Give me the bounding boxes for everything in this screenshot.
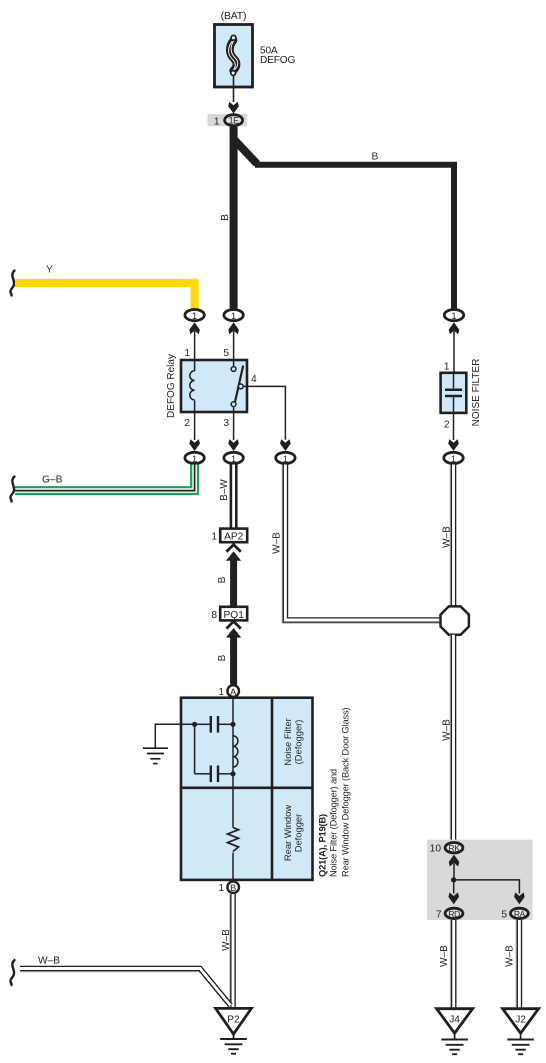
arrows into RD RA — [448, 892, 459, 904]
capacitor bottom — [195, 766, 233, 783]
defogger component box — [181, 698, 313, 880]
connector oval pin4 wire — [276, 452, 295, 463]
wire noise filter to lower connector — [453, 413, 455, 440]
svg-text:RA: RA — [514, 909, 526, 919]
connector band RK/RD/RA — [427, 840, 533, 920]
svg-text:W–B: W–B — [441, 526, 452, 548]
svg-text:3: 3 — [223, 418, 229, 429]
svg-text:B: B — [217, 654, 228, 661]
wire W-B bottom left — [10, 956, 230, 1007]
svg-text:W–B: W–B — [272, 532, 283, 554]
svg-text:1: 1 — [192, 311, 197, 321]
svg-text:RK: RK — [448, 843, 460, 853]
svg-text:1: 1 — [214, 117, 220, 128]
wire B main stem from 1E to relay pin5 connector — [230, 127, 238, 309]
node B — [218, 881, 239, 894]
svg-text:(BAT): (BAT) — [221, 10, 247, 22]
wire pin4 to W-B drop — [243, 386, 285, 439]
svg-text:AP2: AP2 — [224, 532, 244, 543]
svg-text:B: B — [217, 576, 228, 583]
chevron arrow below PQ1 — [226, 621, 241, 684]
junction dots — [192, 722, 197, 727]
svg-text:5: 5 — [501, 909, 507, 920]
svg-text:2: 2 — [444, 420, 450, 431]
arrow into 1E — [228, 102, 239, 114]
svg-text:8: 8 — [211, 610, 217, 621]
svg-text:Q21(A), P19(B): Q21(A), P19(B) — [318, 814, 328, 877]
svg-text:1: 1 — [218, 687, 224, 698]
wire B branch diagonal — [234, 139, 257, 164]
svg-text:1: 1 — [451, 454, 456, 464]
svg-text:7: 7 — [436, 909, 442, 920]
svg-text:J2: J2 — [515, 1015, 526, 1026]
junction box AP2 — [211, 529, 247, 543]
svg-text:B: B — [230, 883, 236, 893]
wire to RA branch — [454, 880, 520, 894]
ground J2 — [503, 1009, 539, 1054]
ground P2 — [216, 1008, 252, 1053]
svg-text:2: 2 — [184, 418, 190, 429]
ground symbol internal — [143, 748, 168, 763]
svg-text:1: 1 — [192, 454, 197, 464]
svg-text:1: 1 — [451, 311, 456, 321]
svg-text:B: B — [372, 152, 379, 163]
svg-text:Rear Window Defogger (Back Doo: Rear Window Defogger (Back Door Glass) — [341, 707, 351, 877]
wire W-B noise filter to octagon — [441, 465, 453, 608]
connector band 1E — [207, 114, 247, 126]
svg-text:G–B: G–B — [42, 475, 63, 486]
svg-text:W–B: W–B — [38, 956, 60, 967]
svg-text:RD: RD — [448, 909, 460, 919]
ground branch in box — [155, 724, 194, 748]
connector oval relay pin3 — [224, 452, 243, 463]
wire W-B octagon to RK — [442, 635, 454, 841]
connector oval relay pin1 — [185, 310, 204, 361]
wire W-B pin4 drop to octagon — [272, 465, 442, 624]
svg-text:W–B: W–B — [439, 945, 450, 967]
fuse element — [230, 40, 237, 70]
junction box PQ1 — [211, 607, 247, 621]
svg-text:B: B — [220, 214, 231, 221]
junction dot — [451, 877, 456, 882]
svg-text:Noise Filter: Noise Filter — [282, 718, 293, 765]
svg-text:10: 10 — [430, 844, 442, 855]
wire Y page connector curl — [10, 271, 14, 296]
relay switch — [233, 360, 235, 367]
svg-text:(Defogger): (Defogger) — [293, 720, 304, 765]
svg-text:W–B: W–B — [221, 929, 232, 951]
junction octagon — [441, 606, 469, 634]
svg-text:1: 1 — [218, 883, 224, 894]
svg-text:5: 5 — [223, 348, 229, 359]
svg-text:Defogger: Defogger — [293, 814, 304, 853]
svg-text:P2: P2 — [227, 1015, 240, 1026]
svg-text:Rear Window: Rear Window — [282, 805, 293, 861]
connector oval noise filter top — [444, 310, 463, 373]
svg-text:1: 1 — [211, 532, 217, 543]
svg-text:4: 4 — [251, 374, 257, 385]
coil defogger — [233, 736, 238, 767]
svg-text:1E: 1E — [229, 116, 239, 126]
fuse 50A DEFOG box — [215, 25, 253, 88]
wires relay pins 2,3 down — [194, 412, 196, 440]
relay DEFOG Relay box — [181, 360, 247, 412]
connector RK — [430, 843, 463, 880]
svg-text:J4: J4 — [449, 1015, 460, 1026]
connector oval relay pin5 — [224, 310, 243, 361]
wire W-B RA to J2 — [505, 920, 520, 1009]
svg-text:PQ1: PQ1 — [224, 610, 245, 621]
left link line — [194, 724, 196, 774]
svg-text:1: 1 — [231, 454, 236, 464]
wire B top horizontal + right vertical — [255, 165, 454, 309]
node A — [218, 685, 239, 698]
wire Y yellow — [15, 279, 191, 287]
svg-text:1: 1 — [283, 454, 288, 464]
svg-text:DEFOG Relay: DEFOG Relay — [166, 354, 177, 418]
svg-text:NOISE FILTER: NOISE FILTER — [471, 359, 482, 427]
wire B-W relay pin3 to AP2 — [219, 465, 234, 529]
divider vertical — [271, 698, 274, 880]
svg-text:1: 1 — [184, 348, 190, 359]
resistor rear defogger — [228, 828, 239, 852]
connector oval noise filter bottom — [444, 452, 463, 463]
divider horizontal — [181, 786, 313, 789]
internal main line — [232, 698, 234, 828]
wire G-B green — [10, 465, 194, 502]
svg-text:B–W: B–W — [219, 479, 230, 501]
svg-text:W–B: W–B — [442, 719, 453, 741]
capacitor top — [195, 716, 233, 733]
connector RD — [436, 908, 463, 920]
chevron arrow below AP2 — [226, 545, 241, 607]
wire W-B node B to P2 — [221, 894, 233, 1009]
connector oval relay pin2 — [185, 452, 204, 463]
svg-text:1: 1 — [231, 311, 236, 321]
svg-text:A: A — [230, 687, 237, 697]
ground J4 — [437, 1009, 473, 1054]
wire fuse to 1E — [233, 75, 235, 102]
wire W-B RD to J4 — [439, 920, 454, 1009]
svg-text:1: 1 — [444, 362, 450, 373]
svg-text:DEFOG: DEFOG — [260, 55, 295, 66]
svg-text:Noise Filter (Defogger) and: Noise Filter (Defogger) and — [329, 769, 339, 877]
svg-text:W–B: W–B — [505, 945, 516, 967]
connector RA — [501, 908, 528, 920]
relay coil — [194, 360, 196, 371]
arrows into lower connector row — [189, 439, 200, 451]
svg-text:Y: Y — [46, 265, 53, 276]
noise filter component — [441, 359, 482, 431]
